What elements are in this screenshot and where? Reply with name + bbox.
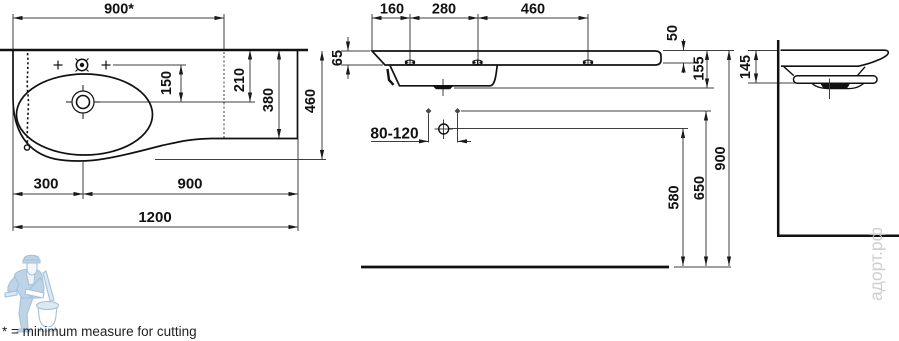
svg-text:* = minimum measure for cuttin: * = minimum measure for cutting [2,324,197,339]
svg-text:580: 580 [667,185,683,209]
svg-text:210: 210 [232,68,248,92]
svg-text:650: 650 [692,176,708,200]
svg-text:160: 160 [380,2,404,18]
svg-text:380: 380 [261,88,277,112]
svg-text:280: 280 [432,2,456,18]
svg-text:50: 50 [665,25,681,41]
svg-text:460: 460 [303,89,319,113]
svg-text:150: 150 [159,71,175,95]
svg-text:145: 145 [738,55,754,79]
svg-text:65: 65 [330,50,346,66]
svg-text:900*: 900* [104,2,134,18]
svg-text:900: 900 [177,176,202,193]
svg-text:1200: 1200 [138,209,171,226]
svg-text:80-120: 80-120 [370,126,418,143]
svg-text:адорт.рф: адорт.рф [866,227,886,301]
svg-text:155: 155 [692,56,708,80]
svg-text:460: 460 [521,2,545,18]
svg-text:300: 300 [33,176,58,193]
svg-text:900: 900 [713,146,729,170]
